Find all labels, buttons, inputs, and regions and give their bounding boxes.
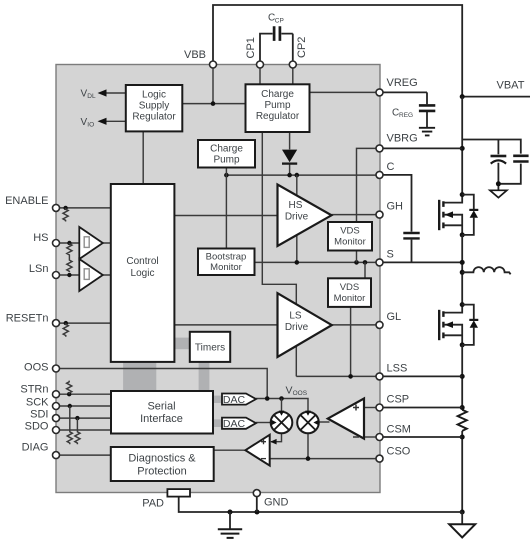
pin LSn xyxy=(29,263,60,279)
DAC 1 xyxy=(222,394,256,406)
wire bottom ground rail xyxy=(179,497,463,512)
label CP1 rotated xyxy=(245,37,257,58)
wire DIAG to diagnostics xyxy=(56,454,111,456)
svg-text:Regulator: Regulator xyxy=(256,111,300,122)
wire VDL output xyxy=(98,89,126,96)
junction S on bus xyxy=(460,260,465,265)
wire DAC2 output to multiplier M1 xyxy=(256,422,271,424)
svg-text:CSO: CSO xyxy=(387,446,411,458)
junction diode on C rail xyxy=(287,173,292,178)
capacitor bulk electrolytic xyxy=(491,156,507,164)
wire GL from LS drive to pin xyxy=(332,324,380,326)
wire RESETn to control logic xyxy=(56,322,111,324)
wire S rail to VDS monitor 2 xyxy=(364,262,366,278)
wire LSS internal rail xyxy=(296,375,379,377)
svg-text:S: S xyxy=(387,249,394,261)
wire CP2 pin to charge pump regulator xyxy=(292,65,294,85)
svg-text:CP1: CP1 xyxy=(245,37,257,58)
wire buffers to control logic xyxy=(103,243,111,275)
wire VBRG to VDS monitor 1 xyxy=(357,148,380,222)
svg-text:Serial: Serial xyxy=(147,401,175,413)
wire multiplier M1 to comparator xyxy=(270,433,281,444)
wire charge pump down to bootstrap monitor xyxy=(225,168,227,249)
wire VBB down to regulator node xyxy=(212,65,214,104)
pin VREG xyxy=(376,77,418,96)
bus bar Control Logic to Timers xyxy=(174,338,189,350)
svg-text:Logic: Logic xyxy=(142,90,166,101)
svg-text:Charge: Charge xyxy=(261,89,294,100)
op-amp LS Drive xyxy=(278,293,332,357)
pin RESETn xyxy=(6,313,60,327)
svg-text:SDO: SDO xyxy=(25,421,49,433)
pin SDI xyxy=(30,409,59,422)
transistor Q1 high-side MOSFET xyxy=(439,195,462,235)
svg-text:DAC: DAC xyxy=(223,418,246,430)
svg-text:Pump: Pump xyxy=(264,100,291,111)
wire CSM input to sense amp xyxy=(364,436,380,438)
wire logic supply regulator to charge pump regulator xyxy=(182,103,245,105)
svg-text:DAC: DAC xyxy=(223,394,246,406)
wire HS drive supply C to S xyxy=(296,175,298,262)
wire VREG from charge pump regulator to pin xyxy=(310,91,380,93)
resistor RESETn pull-down xyxy=(63,321,68,337)
svg-text:Drive: Drive xyxy=(285,322,309,333)
junction inductor on bus xyxy=(460,270,465,275)
wire logic supply regulator to control logic xyxy=(142,131,144,184)
wire S pin to bus xyxy=(380,261,463,263)
ground CREG xyxy=(419,128,435,136)
block VDS Monitor 2 xyxy=(328,278,371,307)
block VDS Monitor 1 xyxy=(328,222,372,251)
wire GND pin down xyxy=(256,496,258,513)
label CREG xyxy=(392,108,413,120)
svg-text:GND: GND xyxy=(264,497,289,509)
multiplier M2 xyxy=(297,411,319,434)
buffer HS input with hysteresis xyxy=(79,227,103,259)
svg-text:HS: HS xyxy=(289,200,303,211)
svg-text:REG: REG xyxy=(399,112,413,119)
pin DIAG xyxy=(22,442,60,459)
svg-text:GL: GL xyxy=(387,311,402,323)
pin SCK xyxy=(26,397,60,410)
junction VBAT xyxy=(460,94,465,99)
block Logic Supply Regulator xyxy=(126,85,183,131)
svg-text:Logic: Logic xyxy=(131,268,155,279)
junction analog ground xyxy=(228,510,233,515)
DAC 2 xyxy=(222,418,256,430)
block Diagnostics and Protection xyxy=(111,447,214,481)
wire SDO to serial interface xyxy=(56,429,111,431)
pin GH xyxy=(376,201,403,219)
pin VBB xyxy=(184,49,217,68)
bus bar Timers to Serial Interface xyxy=(199,362,210,391)
pin C xyxy=(376,161,395,178)
svg-text:RESETn: RESETn xyxy=(6,313,49,325)
resistor current sense xyxy=(458,410,467,431)
svg-text:Timers: Timers xyxy=(195,343,225,354)
inductor phase output xyxy=(462,267,510,274)
op-amp current sense xyxy=(328,399,364,439)
junction multiplier M2 on CSO rail xyxy=(306,456,311,461)
ground center xyxy=(218,512,242,538)
junction HS drive on S rail xyxy=(295,260,300,265)
svg-text:OOS: OOS xyxy=(293,390,308,397)
wire STRn to serial interface xyxy=(56,393,111,395)
svg-text:CSM: CSM xyxy=(387,424,411,436)
svg-text:HS: HS xyxy=(33,232,48,244)
wire DAC1 output VOOS rail xyxy=(256,399,308,412)
pin CSP xyxy=(376,394,409,412)
comparator diagnostics xyxy=(245,435,269,466)
junction Q1 source xyxy=(460,232,465,237)
svg-text:VREG: VREG xyxy=(387,77,418,89)
resistor SDI pull-down xyxy=(75,416,80,444)
wire OOS to offset node xyxy=(56,369,267,399)
svg-text:Diagnostics &: Diagnostics & xyxy=(128,453,196,465)
label CP2 rotated xyxy=(296,37,308,58)
wire ENABLE to control logic xyxy=(56,207,111,209)
junction bulk capacitor ground xyxy=(496,181,501,186)
junction HS drive supply on C rail xyxy=(295,173,300,178)
pin CP1 xyxy=(257,61,264,68)
wire LSS pin to bus xyxy=(380,375,463,377)
pin VBRG xyxy=(376,133,418,152)
wire main drain bus upper xyxy=(461,97,463,195)
bus bar Control Logic to Serial Interface xyxy=(123,362,156,391)
wire comparator output to diagnostics xyxy=(214,449,246,451)
wire VBRG pin to bus xyxy=(380,147,463,149)
svg-text:C: C xyxy=(387,161,395,173)
junction VBB node xyxy=(211,101,216,106)
junction LSS on bus xyxy=(460,374,465,379)
svg-text:SCK: SCK xyxy=(26,397,49,409)
block Control Logic xyxy=(111,184,175,362)
junction VDS monitor 2 on S rail xyxy=(363,260,368,265)
capacitor bulk ceramic xyxy=(513,156,528,162)
svg-text:CSP: CSP xyxy=(387,394,410,406)
svg-text:Protection: Protection xyxy=(137,466,187,478)
svg-text:CP2: CP2 xyxy=(296,37,308,58)
svg-text:LSS: LSS xyxy=(387,363,408,375)
svg-text:IO: IO xyxy=(87,121,94,128)
wire VIO output xyxy=(98,118,126,125)
pin GL xyxy=(376,311,401,328)
label CCP xyxy=(268,13,284,25)
wire VBAT xyxy=(462,96,530,98)
wire control logic to LS drive input xyxy=(174,324,277,326)
svg-text:Pump: Pump xyxy=(213,155,240,166)
wire VOOS rail to multiplier M1 xyxy=(281,399,283,413)
pad exposed thermal PAD xyxy=(167,489,190,497)
buffer LSn input with hysteresis xyxy=(79,259,103,291)
wire S internal rail xyxy=(255,261,380,263)
resistor SCK pull-down xyxy=(67,404,72,444)
wire SDI to serial interface xyxy=(56,417,111,419)
svg-text:VBB: VBB xyxy=(184,49,206,61)
wire VREG to CREG xyxy=(380,91,428,93)
svg-text:OOS: OOS xyxy=(24,362,48,374)
svg-text:Drive: Drive xyxy=(285,212,309,223)
junction Q2 drain xyxy=(460,302,465,307)
IC package body xyxy=(56,65,380,493)
capacitor CREG xyxy=(419,92,435,127)
svg-text:ENABLE: ENABLE xyxy=(5,195,48,207)
svg-text:Supply: Supply xyxy=(139,101,170,112)
pin ENABLE xyxy=(5,195,59,211)
wire HS pin to buffer xyxy=(56,242,79,244)
wire control logic to HS drive input xyxy=(174,215,277,217)
junction CSM on bus xyxy=(460,435,465,440)
label VIO xyxy=(81,117,95,129)
svg-text:VDS: VDS xyxy=(340,226,360,237)
label VDL xyxy=(81,89,96,101)
pin OOS xyxy=(24,362,59,374)
svg-text:Monitor: Monitor xyxy=(334,293,366,304)
pin CP2 xyxy=(289,61,296,68)
pin LSS xyxy=(376,363,407,380)
svg-text:LSn: LSn xyxy=(29,263,49,275)
wire lower bus xyxy=(461,345,463,512)
pin STRn xyxy=(20,384,59,398)
ground power right xyxy=(449,512,475,538)
junction ground rail right xyxy=(460,510,465,515)
op-amp HS Drive xyxy=(278,185,332,247)
multiplier M1 xyxy=(271,411,293,434)
junction VDS monitor 2 on LSS rail xyxy=(348,374,353,379)
junction Q2 source xyxy=(460,342,465,347)
junction CSP on bus xyxy=(460,405,465,410)
pin SDO xyxy=(25,421,60,434)
svg-text:GH: GH xyxy=(387,201,404,213)
svg-text:Monitor: Monitor xyxy=(210,262,242,273)
resistor STRn pull-up xyxy=(67,381,72,397)
diode charge pump regulator output xyxy=(282,132,297,175)
svg-text:LS: LS xyxy=(289,311,302,322)
resistor ENABLE pull-down xyxy=(63,206,68,222)
wire VDS monitor 1 to S rail xyxy=(356,251,358,263)
pin CSO xyxy=(376,446,411,463)
wire CSO internal rail xyxy=(270,458,380,460)
svg-text:Interface: Interface xyxy=(140,413,183,425)
svg-text:V: V xyxy=(286,385,293,397)
block Serial Interface xyxy=(111,391,213,434)
wire bulk capacitor branch xyxy=(462,140,521,191)
svg-text:VDS: VDS xyxy=(340,282,360,293)
svg-text:STRn: STRn xyxy=(20,384,48,396)
transistor Q2 low-side MOSFET xyxy=(439,305,462,345)
junction VBRG on bus xyxy=(460,146,465,151)
capacitor bootstrap external xyxy=(380,175,420,263)
junction GND pin on rail xyxy=(255,510,260,515)
svg-text:VBAT: VBAT xyxy=(497,80,525,92)
block Timers xyxy=(190,332,230,362)
wire mid bus S node xyxy=(461,235,463,305)
block Charge Pump xyxy=(198,140,255,168)
wire VDS monitor 2 to LSS rail xyxy=(350,307,352,377)
svg-text:SDI: SDI xyxy=(30,409,48,421)
junction Q1 drain xyxy=(460,192,465,197)
wire multiplier M2 down to CSO rail xyxy=(307,433,309,458)
label VBAT xyxy=(497,80,525,92)
capacitor CCP with leads xyxy=(260,26,293,64)
wire CSM pin to bus xyxy=(380,436,463,438)
wire CSP input to sense amp xyxy=(364,407,380,409)
wire VBB top loop to VBAT bus xyxy=(213,5,462,97)
pin CSM xyxy=(376,424,411,441)
junction VDS monitor 1 on S rail xyxy=(354,260,359,265)
svg-text:Monitor: Monitor xyxy=(334,237,366,248)
junction charge pump on C rail xyxy=(224,173,229,178)
svg-text:Bootstrap: Bootstrap xyxy=(206,252,247,263)
svg-text:DIAG: DIAG xyxy=(22,442,49,454)
junction OOS on VOOS rail xyxy=(265,396,270,401)
pin GND xyxy=(253,490,288,509)
resistor chain HS to LSn xyxy=(67,241,72,277)
svg-text:Control: Control xyxy=(126,256,158,267)
wire LSn pin to buffer xyxy=(56,274,79,276)
wire SCK to serial interface xyxy=(56,405,111,407)
svg-text:PAD: PAD xyxy=(142,498,164,510)
svg-text:VBRG: VBRG xyxy=(387,133,418,145)
block Charge Pump Regulator xyxy=(246,84,310,132)
svg-text:Charge: Charge xyxy=(210,144,243,155)
wire internal C node rail xyxy=(226,174,379,176)
pin HS xyxy=(33,232,59,247)
block Bootstrap Monitor xyxy=(198,249,255,276)
label PAD xyxy=(142,498,164,510)
wire GH from HS drive to pin xyxy=(332,214,380,216)
diode Q1 body xyxy=(462,195,478,235)
bus bar Serial Interface to DAC2 xyxy=(213,419,222,427)
svg-text:DL: DL xyxy=(87,93,96,100)
wire CSP pin to bus xyxy=(380,407,463,409)
pin S xyxy=(376,249,394,266)
wire CP1 pin to charge pump regulator xyxy=(259,65,261,85)
wire sense amp output to multiplier M2 xyxy=(319,421,330,423)
bus bar Serial Interface to DAC1 xyxy=(213,396,222,403)
junction multiplier M1 top on VOOS rail xyxy=(279,396,284,401)
svg-text:Regulator: Regulator xyxy=(132,112,176,123)
svg-text:CP: CP xyxy=(275,17,284,24)
diode Q2 body xyxy=(462,305,478,345)
label VOOS xyxy=(286,385,308,398)
wire charge pump regulator to LS drive supply xyxy=(262,132,296,376)
ground bulk capacitors xyxy=(490,190,507,197)
